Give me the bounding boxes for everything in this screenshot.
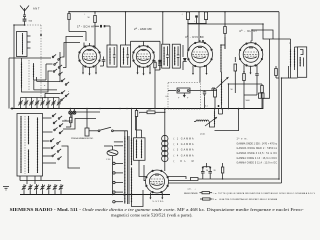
tube V1 cathode pins [82, 66, 97, 76]
resistor R6 cathode [154, 60, 156, 109]
fuse resistor R11 [135, 109, 140, 117]
capacitor C11 [100, 57, 105, 67]
wire B+ return line [168, 182, 282, 184]
trimmer capacitor CT8 [57, 98, 61, 110]
resistor R10 [212, 88, 216, 109]
svg-text:20: 20 [214, 170, 216, 172]
winding L6b AF choke lower [217, 72, 229, 109]
svg-text:1 w: 1 w [213, 199, 217, 201]
ground bus 2 [20, 194, 170, 196]
tube V4 4-FIN BF [239, 29, 263, 67]
svg-text:al alt.: al alt. [200, 133, 206, 136]
svg-text:0,1: 0,1 [205, 106, 208, 108]
winding L6 AF choke [220, 37, 225, 72]
output transformer secondary [289, 43, 295, 71]
svg-text:GAMMA ONDE 4 13 : 16,9 m OC: GAMMA ONDE 4 13 : 16,9 m OCC [237, 157, 278, 160]
resistor R12 filter [190, 178, 279, 181]
antenna coil L2 [21, 58, 29, 90]
svg-text:RESISTENZE: RESISTENZE [184, 193, 198, 195]
capacitor C6 cathode bypass [255, 70, 259, 95]
svg-text:50: 50 [88, 17, 90, 19]
AVC dashed line [25, 25, 42, 101]
capacitor C10 filter [203, 163, 216, 179]
trimmer capacitor CT1 [18, 98, 22, 110]
wire IF can T2a feed [162, 12, 164, 44]
value label +50 R2 [84, 14, 90, 20]
padder capacitor CP6 [53, 184, 57, 194]
power transformer primary [124, 136, 125, 203]
wire plate feed tube V3 [198, 12, 200, 42]
terminal marks a terra [3, 187, 9, 191]
capacitor C2 decoupling blob [95, 25, 105, 28]
resistor R4 [204, 12, 207, 23]
capacitor C12 grid [183, 45, 187, 70]
wires oscillator coils to switches [43, 118, 57, 163]
svg-text:GAMMA ONDE MED 2 : 5950 kc: GAMMA ONDE MED 2 : 5950 kc [237, 147, 278, 150]
svg-text:4ª - 6L 4T: 4ª - 6L 4T [239, 29, 257, 33]
svg-text:( 3 GAMMA: ( 3 GAMMA [174, 149, 194, 152]
ground bus 1 [10, 107, 263, 110]
band switch S3 contacts [52, 113, 63, 133]
svg-text:5 - U Y 3 G: 5 - U Y 3 G [153, 201, 164, 203]
svg-text:3ª - RIV BF: 3ª - RIV BF [185, 35, 204, 39]
tube V5 pins [149, 193, 163, 203]
svg-text:2ª - AMF MF: 2ª - AMF MF [134, 27, 152, 31]
resistor R16 [261, 84, 264, 109]
wires switch to oscillator tube [62, 112, 101, 168]
svg-text:GAMMA ONDE 5 11,4 : 13,9 m: GAMMA ONDE 5 11,4 : 13,9 m OC [237, 162, 278, 165]
wire choke junctions [218, 105, 223, 114]
power transformer T4 terminals [113, 142, 123, 203]
wire antenna to coil L1 [14, 25, 25, 103]
power transformer heater windings [131, 167, 132, 202]
resistor R1 dropping [68, 12, 70, 32]
wire bus drop to field coil [215, 108, 240, 130]
wires transformer to rectifier [132, 160, 146, 206]
resistor R17 lamp dropper [65, 114, 73, 127]
choke L9 [200, 109, 217, 136]
IF transformer T1b [121, 12, 131, 67]
tube V3 3-RIV BF [185, 35, 213, 67]
wires switch S1 to tube V1 grid [62, 32, 86, 68]
svg-text:500: 500 [148, 109, 151, 111]
svg-text:( 4 GAMMA: ( 4 GAMMA [174, 154, 194, 157]
svg-text:GAMMA ONDE 1 550 : 1470 + 47: GAMMA ONDE 1 550 : 1470 + 470 kc [237, 142, 278, 145]
loudspeaker [295, 47, 307, 77]
svg-text:GAMMA ONDE 3 16,5 : 51 m OC: GAMMA ONDE 3 16,5 : 51 m OC [237, 152, 278, 155]
wire resistor join [187, 23, 206, 51]
power transformer core [127, 136, 129, 204]
diode load marker [178, 93, 189, 100]
capacitor C7 electrolytic [203, 91, 206, 109]
trimmer capacitor CT7 [51, 98, 55, 110]
screened lead box [134, 117, 146, 161]
svg-text:LE ALTRE CON WATTAGGIO INDICAT: LE ALTRE CON WATTAGGIO INDICATO NELLO SC… [219, 198, 278, 201]
antenna ANT [20, 6, 40, 16]
output transformer T3 primary [290, 39, 291, 78]
IF transformer T2b [172, 44, 180, 68]
wire AVC box to electrolytic [201, 90, 217, 92]
padder capacitor CP5 [47, 184, 51, 194]
wire routing around V2 [131, 41, 162, 70]
band switch S2 contacts [44, 78, 70, 100]
power transformer secondary HT [131, 109, 132, 165]
wire trimmer feed line [21, 97, 60, 99]
svg-text:( 2 GAMMA: ( 2 GAMMA [174, 143, 194, 146]
resistor R9 hum bucking [275, 66, 279, 78]
resistor R14 heater dropping [139, 108, 166, 113]
padder capacitor CP2 [28, 184, 32, 194]
tube V2 cathode pins [137, 66, 152, 76]
capacitor C1 antenna series [23, 15, 33, 25]
IF transformer T2a [162, 44, 170, 68]
trimmer capacitor CT6 [46, 98, 50, 110]
capacitor C9 filter [201, 167, 205, 179]
band table text [237, 137, 278, 165]
oscillator coil L4c [37, 117, 38, 173]
tube V4 pins [243, 65, 257, 75]
trimmer capacitor CT3 [29, 98, 33, 110]
resistor R8 cathode V4 [243, 74, 257, 96]
svg-text:50: 50 [231, 89, 233, 91]
capacitor C8 electrolytic can [104, 146, 118, 195]
resistor R7 [234, 57, 237, 93]
wires band switch S2 [34, 52, 61, 98]
padder capacitor CP3 [34, 184, 38, 194]
svg-text:PRESA GRAMMOFONO: PRESA GRAMMOFONO [71, 137, 94, 140]
oscillator coil L4b [25, 116, 29, 174]
wire ground return left [9, 58, 17, 109]
resistor R5 detector feed [224, 12, 227, 49]
dial lamp LP1 [69, 109, 72, 115]
bandfilter unit MF [168, 88, 201, 93]
IF transformer T1a [105, 26, 118, 67]
legend resistor half watt [184, 191, 316, 195]
wire left down to bus [13, 103, 15, 109]
mains switch S5 [85, 109, 127, 140]
field coil L8 [194, 120, 209, 122]
resistor R2 screen feed [94, 12, 97, 49]
trimmer capacitor CT4 [35, 98, 39, 110]
screen bus wire [188, 24, 291, 41]
trimmer capacitor CT5 [40, 98, 44, 110]
svg-text:o.m.: o.m. [188, 189, 192, 191]
wires coil block to switch S1 [22, 58, 53, 92]
band switch S1 contacts [52, 54, 62, 75]
padder capacitor CP7 [59, 184, 63, 194]
svg-text:1ª - SCH HF: 1ª - SCH HF [77, 25, 95, 29]
trimmer capacitor CT2 [24, 98, 28, 110]
svg-text:5000: 5000 [246, 100, 250, 102]
tube V5 rectifier 5-RADD [145, 170, 168, 193]
antenna coil L1 [17, 32, 31, 59]
wire junction to bus [225, 45, 244, 109]
svg-text:magnetici come serie 520/521 (: magnetici come serie 520/521 (vedi a par… [111, 212, 193, 217]
capacitor C5 bypass [155, 60, 162, 70]
resistor R3 [182, 12, 190, 23]
band labels GAMMA [174, 138, 194, 163]
connector box [259, 39, 270, 109]
band switch S4 contacts [50, 138, 61, 159]
svg-text:SIEMENS RADIO - Mod. 511 - Ond: SIEMENS RADIO - Mod. 511 - Onde medie di… [10, 207, 305, 212]
oscillator coil L4a [20, 116, 21, 173]
capacitor C3 blob [194, 15, 198, 23]
wires coil block 2 to padder row [20, 176, 41, 184]
coupling coil L3 [33, 63, 34, 80]
wire primary top lead [124, 131, 126, 137]
svg-text:( 1 GAMMA: ( 1 GAMMA [174, 138, 194, 141]
oscillator coil assembly L4 frame [17, 114, 43, 177]
tube V1 1-SCH HF [77, 25, 101, 68]
svg-text:TUTTE QUELLE SENZA INDICAZIONE: TUTTE QUELLE SENZA INDICAZIONE DI WATTAG… [218, 192, 316, 195]
wire rectifier output [168, 177, 190, 181]
wire output stage vertical feeds [279, 12, 298, 183]
padder capacitor CP4 [40, 184, 44, 194]
AVC filter dashed enclosure [168, 82, 201, 109]
wire padder feed line [20, 180, 61, 182]
resistor R15 bleeder [221, 163, 223, 180]
oscillator padder coil L7 [162, 109, 168, 171]
svg-text:20: 20 [206, 170, 208, 172]
legend resistor one watt [200, 198, 278, 201]
tube V3 pins [192, 66, 208, 83]
tube V2 2-AMF MF [132, 27, 154, 68]
svg-text:A N T: A N T [33, 7, 40, 11]
B+ supply bus [69, 11, 279, 13]
marks o.m. [188, 189, 197, 191]
dial lamp LP2 [73, 109, 76, 115]
wire AVC return [228, 83, 262, 108]
padder capacitor CP1 [22, 184, 26, 194]
svg-text:0,5: 0,5 [166, 96, 169, 98]
